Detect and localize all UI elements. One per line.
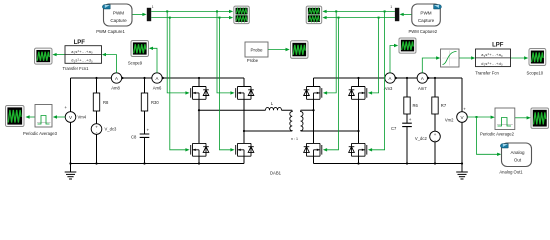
transfer function LPF1 xyxy=(63,40,102,71)
transfer function LPF2 xyxy=(475,42,510,75)
resistor R8 xyxy=(93,93,109,111)
wire bottom rail left bridge xyxy=(71,163,245,165)
wire Am3 to scope xyxy=(390,46,397,73)
transistor Q6 (bridge2 leg1 bottom, mirrored) xyxy=(304,143,322,156)
arrow gate Q8 xyxy=(368,148,372,151)
svg-text:+: + xyxy=(409,117,412,122)
wire top rail left bridge xyxy=(71,77,245,79)
wire Am8 to LPF1 xyxy=(103,55,117,73)
wire top rail right bridge xyxy=(314,77,463,79)
arrow into LPF2 xyxy=(471,56,475,59)
arrow into 2ch scope ch1 xyxy=(229,10,233,13)
svg-text:A: A xyxy=(156,76,159,81)
wire R6/C7 branch xyxy=(406,78,408,164)
transistor Q1 (bridge1 leg1 top) xyxy=(191,87,209,100)
svg-text:V_dc3: V_dc3 xyxy=(105,127,118,132)
transformer (primary winding) xyxy=(290,111,292,132)
wire bottom rail right bridge xyxy=(314,163,463,165)
scope (left bottom) xyxy=(6,106,25,127)
PWM Capture2 block xyxy=(408,4,441,34)
svg-text:Scope10: Scope10 xyxy=(527,70,544,75)
arrow gate Q3 xyxy=(230,91,234,94)
arrow into scope from Probe xyxy=(286,48,290,51)
svg-text:Am7: Am7 xyxy=(418,86,427,91)
resistor R6 xyxy=(404,97,419,114)
svg-text:V_dc2: V_dc2 xyxy=(415,136,428,141)
wire bridge2 leg2 xyxy=(358,78,360,164)
ammeter Am7 xyxy=(417,73,430,91)
wire gate riser bridge1 leg1 top xyxy=(167,11,186,93)
wire mux2 output 1 to scope xyxy=(324,10,395,12)
wire LPF2 to Scope8 xyxy=(511,57,528,59)
wire Periodic Average3 to scope xyxy=(27,116,36,118)
svg-text:Vm2: Vm2 xyxy=(445,117,454,122)
wire mux2 output 2 to scope xyxy=(324,17,395,19)
svg-text:Probe: Probe xyxy=(247,58,259,63)
arrow into Analog Out xyxy=(497,153,501,156)
voltage source V_dc2 xyxy=(415,131,440,143)
2-channel scope (left) xyxy=(234,6,250,24)
wire gate riser bridge2 leg2 top xyxy=(371,18,378,93)
scope (probe output) xyxy=(291,41,309,59)
Analog Out block xyxy=(499,143,531,175)
arrow into Periodic Average3 xyxy=(53,115,57,118)
wire gate riser bridge2 leg1 top xyxy=(326,11,336,93)
svg-text:R30: R30 xyxy=(151,100,159,105)
scope Scope9 xyxy=(128,41,149,66)
svg-text:d2s2+...+d0: d2s2+...+d0 xyxy=(71,58,93,64)
inductor L xyxy=(266,101,282,110)
Periodic Average3 block xyxy=(23,105,58,136)
svg-text:LPF: LPF xyxy=(74,40,86,46)
svg-text:1: 1 xyxy=(390,5,392,9)
mux2 xyxy=(390,5,399,21)
arrow into mux1 xyxy=(142,13,146,16)
svg-text:Transfer Fcn: Transfer Fcn xyxy=(475,70,499,75)
svg-text:R6: R6 xyxy=(413,103,419,108)
arrow gate Q4 xyxy=(230,148,234,151)
transformer (secondary winding) xyxy=(301,111,303,132)
svg-text:A: A xyxy=(115,76,118,81)
svg-text:C7: C7 xyxy=(391,126,397,131)
mux1 xyxy=(147,5,154,21)
svg-text:+: + xyxy=(95,124,98,129)
svg-text:a2s2+...+a0: a2s2+...+a0 xyxy=(481,52,503,58)
transistor Q7 (bridge2 leg2 top, mirrored) xyxy=(349,87,367,100)
svg-text:a2s2+...+a0: a2s2+...+a0 xyxy=(71,49,93,55)
svg-text:+: + xyxy=(64,105,67,110)
svg-text:DAB1: DAB1 xyxy=(270,170,282,175)
svg-text:R8: R8 xyxy=(103,100,109,105)
ground (right) xyxy=(456,164,468,180)
PWM Capture1 block xyxy=(96,4,132,34)
arrow into 2ch scope ch2 xyxy=(229,16,233,19)
wire mux1 output 1 to scope xyxy=(151,10,232,12)
wire R8 branch xyxy=(96,78,98,164)
voltmeter Vm2 xyxy=(445,106,467,122)
wire Am6 to Scope9 xyxy=(150,48,157,73)
2-channel scope (right) xyxy=(306,6,322,24)
scope (output of LPF1) xyxy=(35,48,53,64)
wire gate riser bridge1 leg2 bottom xyxy=(220,18,232,150)
svg-text:Out: Out xyxy=(514,158,522,163)
arrow gate Q2 xyxy=(185,148,189,151)
svg-text:Periodic Average2: Periodic Average2 xyxy=(480,131,515,136)
wire R7/Vdc2 branch xyxy=(434,78,436,164)
wire bridge1 leg1 xyxy=(198,78,200,164)
svg-text:+: + xyxy=(147,128,150,133)
ammeter Am6 xyxy=(152,73,165,91)
svg-text:Am8: Am8 xyxy=(111,85,120,90)
wire gate riser bridge2 leg1 bottom xyxy=(326,18,338,150)
svg-text:Periodic Average3: Periodic Average3 xyxy=(23,131,58,136)
svg-text:Transfer Fcn1: Transfer Fcn1 xyxy=(63,66,90,71)
arrow into mux2 xyxy=(400,13,404,16)
svg-text:C8: C8 xyxy=(131,135,137,140)
svg-text:A: A xyxy=(389,76,392,81)
arrow gate Q6 xyxy=(323,148,327,151)
arrow into 2ch scope2 ch1 xyxy=(322,10,326,13)
transistor Q3 (bridge1 leg2 top) xyxy=(236,87,254,100)
arrow gate Q7 xyxy=(368,91,372,94)
arrow into LPF1 xyxy=(102,53,106,56)
svg-text:Am6: Am6 xyxy=(153,85,162,90)
wire PWM Capture2 to mux2 xyxy=(402,13,412,15)
wire bridge1 leg2 xyxy=(243,78,245,164)
wire secondary top to bridge2 leg1 xyxy=(301,109,314,111)
transistor Q2 (bridge1 leg1 bottom) xyxy=(191,143,209,156)
saturation block xyxy=(441,49,460,67)
node dots (black junctions) xyxy=(69,77,463,165)
svg-text:Analog Out1: Analog Out1 xyxy=(499,170,523,175)
svg-text:+: + xyxy=(434,132,437,137)
svg-text:+: + xyxy=(463,106,466,111)
ground (left) xyxy=(65,164,77,180)
arrow into Scope9 xyxy=(149,47,153,50)
voltage source V_dc3 xyxy=(91,124,117,136)
voltmeter Vm4 xyxy=(64,105,86,122)
wire Periodic Average2 to scope xyxy=(515,117,530,119)
arrow into scope from Periodic Average3 xyxy=(25,115,29,118)
svg-text:PWM Capture1: PWM Capture1 xyxy=(96,29,125,34)
resistor R7 xyxy=(432,97,447,114)
svg-text:Capture: Capture xyxy=(110,18,127,23)
wire Vm2 to Periodic Average2 xyxy=(467,116,493,118)
wire PWM Capture1 to mux1 xyxy=(132,13,145,15)
svg-text:LPF: LPF xyxy=(492,42,504,48)
svg-text:Capture: Capture xyxy=(418,18,435,23)
capacitor C8 xyxy=(131,128,150,140)
svg-text:PWM Capture2: PWM Capture2 xyxy=(408,29,437,34)
Periodic Average2 block xyxy=(480,108,515,136)
svg-text:n : 1: n : 1 xyxy=(291,137,298,141)
Probe block xyxy=(245,42,268,63)
svg-text:d2s2+...+d0: d2s2+...+d0 xyxy=(481,61,503,67)
scope Scope8 xyxy=(527,49,546,76)
wire Am7 to saturation block xyxy=(422,58,439,73)
arrow gate Q5 xyxy=(323,91,327,94)
scope (right bottom) xyxy=(531,108,549,128)
capacitor C7 xyxy=(391,117,412,131)
scope (Am3 output) xyxy=(399,38,416,53)
wire mux1 output 2 to scope xyxy=(151,17,232,19)
arrow into scope from Periodic Average2 xyxy=(527,116,531,119)
arrow into Scope8 xyxy=(524,56,528,59)
svg-text:Analog: Analog xyxy=(510,150,525,155)
wire leg1 midpoint to inductor to primary xyxy=(199,109,292,111)
wire LPF1 to scope xyxy=(54,54,66,56)
wire Vm4 to Periodic Average3 xyxy=(54,116,65,118)
svg-text:1: 1 xyxy=(152,5,154,9)
arrow into 2ch scope2 ch2 xyxy=(322,16,326,19)
wire right output rail xyxy=(461,78,463,164)
wire saturation to LPF2 xyxy=(459,57,474,59)
wire gate riser bridge2 leg2 bottom xyxy=(371,11,384,149)
arrow gate Q1 xyxy=(185,91,189,94)
green junction dots xyxy=(166,10,477,118)
wire secondary bottom to bridge2 leg2 xyxy=(301,130,359,132)
resistor R30 xyxy=(141,93,159,111)
svg-text:Vm4: Vm4 xyxy=(78,115,87,120)
svg-text:R7: R7 xyxy=(441,103,447,108)
svg-text:Probe: Probe xyxy=(250,48,263,53)
wire Probe to scope xyxy=(268,49,289,51)
wire Vm2 junction to Analog Out xyxy=(477,117,501,154)
wire left input rail xyxy=(70,78,72,164)
wire gate riser bridge1 leg1 bottom xyxy=(170,18,186,150)
wire R30/C8 branch xyxy=(144,78,146,164)
wire bridge2 leg1 xyxy=(313,78,315,164)
green arrowheads xyxy=(25,10,530,156)
ammeter Am8 xyxy=(111,73,125,91)
transistor Q5 (bridge2 leg1 top, mirrored) xyxy=(304,87,322,100)
wire leg2 midpoint to primary bottom xyxy=(244,130,292,132)
arrow into saturation block xyxy=(436,56,440,59)
arrow into scope from Am3 xyxy=(394,44,398,47)
svg-text:PWM: PWM xyxy=(420,11,431,16)
wire gate riser bridge1 leg2 top xyxy=(217,11,231,93)
svg-text:Am3: Am3 xyxy=(384,86,393,91)
ammeter Am3 xyxy=(384,73,399,91)
arrow into scope from LPF1 xyxy=(52,53,56,56)
svg-text:A: A xyxy=(421,76,424,81)
transistor Q4 (bridge1 leg2 bottom) xyxy=(236,143,254,156)
svg-text:Scope9: Scope9 xyxy=(128,61,143,66)
arrow into Periodic Average2 xyxy=(491,116,495,119)
transistor Q8 (bridge2 leg2 bottom, mirrored) xyxy=(349,143,367,156)
svg-text:PWM: PWM xyxy=(113,11,124,16)
